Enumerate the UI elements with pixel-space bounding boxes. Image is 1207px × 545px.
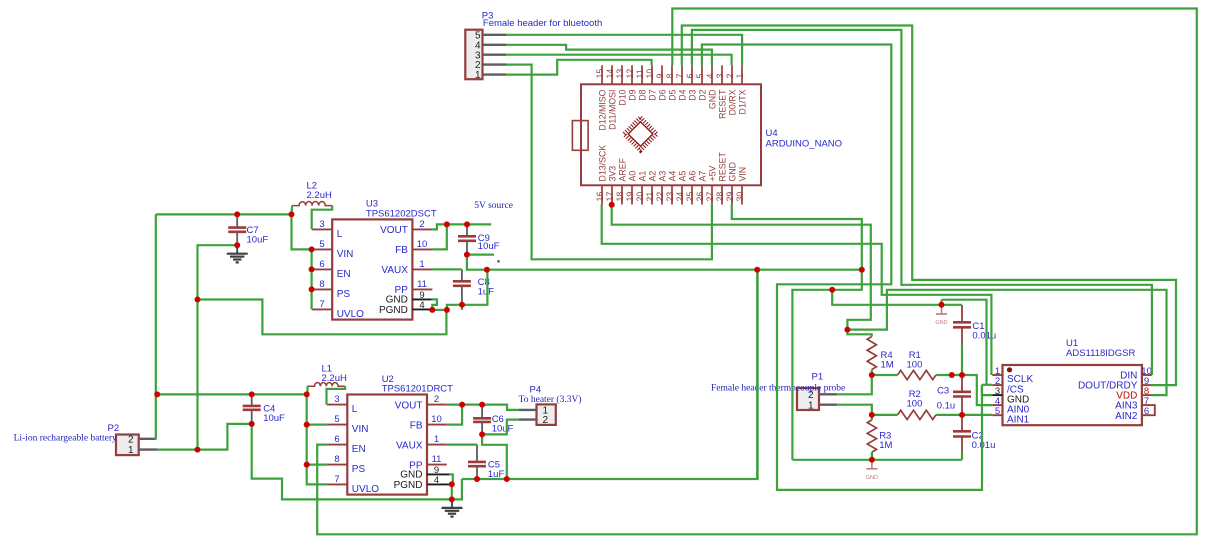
junction (757.2,269.7) — [754, 267, 760, 273]
wire C6 bottom to gnd rail — [482, 434, 507, 479]
junction (861.8,269.7) — [859, 267, 865, 273]
wire GND long line — [467, 255, 862, 270]
svg-text:11: 11 — [635, 69, 645, 78]
junction (306.7,424.6) — [304, 422, 310, 428]
U3 pin 6 (EN) — [312, 268, 332, 270]
connector P1 (thermocouple probe) — [797, 388, 819, 410]
svg-text:6: 6 — [334, 434, 339, 445]
svg-text:VOUT: VOUT — [395, 400, 423, 411]
svg-text:0.01u: 0.01u — [972, 331, 996, 342]
P4 pin 2 — [519, 418, 537, 420]
connector P2 (Li-ion battery) — [116, 435, 139, 456]
svg-text:A7: A7 — [697, 171, 707, 182]
wire battery- to U3 PGND cluster — [198, 300, 447, 335]
wire FB to VOUT — [432, 224, 446, 249]
wire stub below C8 dot — [461, 305, 463, 310]
svg-text:16: 16 — [595, 192, 605, 202]
wire L1 right to U2 L pin — [327, 386, 346, 404]
svg-text:4: 4 — [419, 300, 424, 311]
junction (306.7,394.4) — [304, 391, 310, 397]
svg-text:EN: EN — [352, 444, 366, 455]
svg-text:15: 15 — [595, 69, 605, 79]
junction (291.5,214.4) — [289, 211, 295, 217]
U2 pin 6 (EN) — [327, 444, 347, 446]
svg-text:26: 26 — [695, 192, 705, 202]
U3 pin 9 (GND) — [412, 298, 431, 300]
svg-text:Female header for bluetooth: Female header for bluetooth — [483, 18, 602, 29]
wire AIN1 node to R2 — [872, 414, 898, 416]
svg-text:100: 100 — [907, 399, 923, 410]
junction (237.2,214.4) — [234, 211, 240, 217]
U4 pin 30 (VIN) bottom — [741, 185, 743, 204]
junction (462.0,304.8) — [459, 302, 465, 308]
svg-text:RESET: RESET — [717, 152, 727, 182]
junction (962.0,414.9) — [959, 412, 965, 418]
svg-text:5: 5 — [995, 406, 1000, 417]
svg-text:D6: D6 — [657, 89, 667, 100]
junction (311.6,269.4) — [309, 266, 315, 272]
U4 pin 28 (RESET) bottom — [721, 185, 723, 204]
wire dotB to dotC — [832, 270, 862, 290]
U4 usb connector symbol — [572, 121, 588, 151]
svg-text:D1/TX: D1/TX — [737, 89, 747, 114]
wire P4.2 to C6 bottom — [482, 420, 518, 435]
P3 pin 2 — [483, 63, 507, 65]
svg-text:10uF: 10uF — [263, 413, 285, 424]
svg-text:D7: D7 — [647, 89, 657, 100]
P4 pin 1 — [519, 409, 537, 411]
junction (451.8,499.4) — [449, 496, 455, 502]
ground (C7) — [227, 245, 248, 262]
wire L2 node to U3 VIN — [292, 214, 312, 249]
U4 pin 18 (AREF) bottom — [621, 185, 623, 204]
P3 pin 4 — [483, 44, 507, 46]
svg-text:A3: A3 — [657, 171, 667, 182]
resistor — [898, 410, 936, 419]
svg-text:28: 28 — [715, 192, 725, 202]
capacitor C5 — [468, 445, 486, 479]
svg-text:VAUX: VAUX — [396, 440, 423, 451]
svg-text:GND: GND — [707, 90, 717, 110]
svg-text:6: 6 — [685, 74, 695, 79]
wire 3V3 to R4 top — [847, 330, 871, 337]
svg-text:20: 20 — [635, 192, 645, 202]
P3 pin 3 — [483, 54, 507, 56]
U3 pin 7 (UVLO) — [312, 308, 332, 310]
P2 pin 1 — [139, 448, 157, 450]
svg-text:UVLO: UVLO — [337, 309, 364, 320]
svg-text:30: 30 — [735, 192, 745, 202]
svg-text:1: 1 — [434, 434, 439, 445]
junction (306.7,464.6) — [304, 462, 310, 468]
wire R1 to U1 AIN0 — [936, 375, 992, 405]
connector P3 (female header for bluetooth) — [465, 30, 482, 79]
wire gnd rail up to dotC — [792, 290, 832, 460]
svg-text:10uF: 10uF — [492, 424, 514, 435]
svg-text:1: 1 — [735, 74, 745, 79]
IC U1 ADS1118IDGSR body — [1003, 365, 1142, 425]
junction (311.6,249.4) — [309, 246, 315, 252]
svg-text:1: 1 — [419, 259, 424, 270]
junction (466.9,254.6) — [464, 252, 470, 258]
svg-text:22: 22 — [655, 192, 665, 202]
wire GND pin29 down — [732, 205, 862, 270]
U4 pin 13 (D10) top — [621, 65, 623, 84]
wire gnd rail link — [452, 479, 462, 499]
svg-text:Li-ion rechargeable battery: Li-ion rechargeable battery — [14, 434, 117, 444]
svg-text:PS: PS — [337, 289, 351, 300]
svg-text:1M: 1M — [879, 440, 892, 451]
svg-text:P2: P2 — [108, 423, 120, 434]
svg-text:A5: A5 — [677, 171, 687, 182]
svg-text:VOUT: VOUT — [380, 225, 408, 236]
wire L2 left lead — [290, 206, 293, 215]
wire U3 VAUX to C8 — [432, 268, 462, 270]
U3 pin 10 (FB) — [412, 248, 432, 250]
svg-text:2: 2 — [128, 434, 134, 445]
svg-text:3: 3 — [319, 219, 324, 230]
svg-text:TPS61201DRCT: TPS61201DRCT — [382, 384, 453, 395]
svg-text:11: 11 — [417, 279, 427, 290]
svg-text:D10: D10 — [617, 89, 627, 105]
svg-text:AREF: AREF — [617, 157, 627, 181]
U4 pin 11 (D8) top — [641, 65, 643, 84]
svg-text:5: 5 — [334, 414, 339, 425]
svg-text:8: 8 — [665, 74, 675, 79]
svg-text:3V3: 3V3 — [607, 166, 617, 182]
junction (197.5,299.5) — [195, 297, 201, 303]
wire CS to GND pin link — [982, 385, 992, 395]
svg-text:GND: GND — [727, 162, 737, 182]
junction (451.8,484.3) — [449, 481, 455, 487]
svg-text:A6: A6 — [687, 171, 697, 182]
svg-text:D0/RX: D0/RX — [727, 89, 737, 115]
wire U3 VOUT 5V — [432, 224, 491, 229]
U4 pin 25 (A6) bottom — [691, 185, 693, 204]
junction (432.3,309.9) — [429, 307, 435, 313]
junction (871.8,414.9) — [869, 412, 875, 418]
U4 pin 24 (A5) bottom — [681, 185, 683, 204]
inductor — [308, 383, 346, 387]
U2 pin 8 (PS) — [327, 464, 347, 466]
P3 pin 5 — [483, 34, 507, 36]
svg-text:VIN: VIN — [352, 424, 369, 435]
GND flag (below R3) — [866, 460, 878, 481]
junction (446.9,309.9) — [444, 307, 450, 313]
svg-text:1: 1 — [808, 400, 814, 411]
svg-text:FB: FB — [395, 245, 408, 256]
U2 pin 11 (PP) — [427, 464, 447, 466]
resistor — [898, 370, 936, 379]
svg-text:ADS1118IDGSR: ADS1118IDGSR — [1066, 348, 1135, 359]
svg-text:AIN1: AIN1 — [1007, 414, 1030, 425]
svg-text:PGND: PGND — [379, 305, 408, 316]
U2 pin 9 (GND) — [427, 473, 449, 475]
U1 pin 9 (DOUT/DRDY) — [1142, 384, 1152, 386]
svg-text:14: 14 — [605, 69, 615, 79]
svg-text:24: 24 — [675, 192, 685, 202]
U4 pin 8 (D5) top — [671, 65, 673, 84]
svg-text:10uF: 10uF — [478, 241, 500, 252]
resistor — [867, 420, 876, 452]
junction (446.8,224.4) — [444, 221, 450, 227]
wire P3.2 to +5V pin27 — [506, 65, 712, 260]
wire thermocouple gnd rail — [792, 459, 962, 461]
svg-text:VIN: VIN — [737, 167, 747, 182]
junction (832.2,289.8) — [829, 287, 835, 293]
svg-text:29: 29 — [725, 192, 735, 202]
U4 pin 15 (D12/MISO) top — [601, 65, 603, 84]
U4 pin 6 (D3) top — [691, 65, 693, 84]
svg-text:AIN2: AIN2 — [1115, 411, 1138, 422]
wire R4 bottom — [871, 370, 873, 376]
U2 pin 5 (VIN) — [327, 424, 347, 426]
U2 pin 1 (VAUX) — [427, 444, 447, 446]
svg-text:L: L — [337, 229, 343, 240]
wire 3V3 down — [612, 205, 871, 330]
junction (157.2,394.4) — [154, 391, 160, 397]
wire U2 FB to VOUT — [447, 405, 462, 425]
wire L1 left lead — [306, 386, 308, 394]
svg-text:5V source: 5V source — [474, 201, 513, 211]
U4 pin 29 (GND) bottom — [731, 185, 733, 204]
svg-text:18: 18 — [615, 192, 625, 202]
wire D5 to U2 EN (outer loop) — [317, 9, 1197, 535]
junction (251.7,423.9) — [249, 421, 255, 427]
stray dot — [497, 260, 500, 263]
wire C7 bottom to battery- vertical — [198, 245, 238, 449]
wire AIN0 node to R1 — [872, 374, 898, 376]
wire C4 bottom to U2 ground rail — [252, 424, 452, 500]
U4 pin 12 (D9) top — [631, 65, 633, 84]
U1 pin 7 (AIN3) — [1142, 404, 1152, 406]
U3 pin 2 (VOUT) — [412, 228, 432, 230]
svg-text:4: 4 — [705, 74, 715, 79]
U4 pin 9 (D6) top — [661, 65, 663, 84]
junction (251.7,394.4) — [249, 391, 255, 397]
wire dot2 up to C8 bottom — [447, 305, 462, 310]
IC U4 ARDUINO_NANO body — [581, 84, 761, 185]
svg-text:C3: C3 — [937, 386, 949, 397]
U4 pin 26 (A7) bottom — [701, 185, 703, 204]
U3 pin 5 (VIN) — [312, 248, 332, 250]
wire CS stub — [982, 384, 992, 386]
wire U2 VAUX to C5 — [447, 444, 477, 446]
svg-text:7: 7 — [334, 474, 339, 485]
U4 pin 17 (3V3) bottom — [611, 185, 613, 204]
svg-text:PS: PS — [352, 464, 366, 475]
U4 pin 7 (D4) top — [681, 65, 683, 84]
wire GND to U1 CS — [942, 300, 987, 385]
U4 pin 20 (A1) bottom — [641, 185, 643, 204]
wire gnd rail to GND line — [462, 270, 758, 479]
P1 pin 1 — [819, 404, 837, 406]
svg-text:0.1u: 0.1u — [937, 401, 956, 412]
svg-text:2: 2 — [725, 74, 735, 79]
resistor — [867, 337, 876, 370]
svg-text:To heater (3.3V): To heater (3.3V) — [519, 394, 582, 405]
wire P1.1 to AIN1 node — [837, 405, 872, 415]
wire battery+ vertical — [155, 214, 158, 438]
U4 pin 16 (D13/SCK) bottom — [601, 185, 603, 204]
P2 pin 2 — [139, 438, 157, 440]
U1 pin 3 (GND) — [992, 394, 1002, 396]
wire P1.2 to AIN0 node — [837, 375, 872, 394]
junction (611.7,204.8) — [609, 202, 615, 208]
inductor — [292, 202, 332, 206]
svg-text:11: 11 — [432, 454, 442, 465]
junction (311.6,289.4) — [309, 286, 315, 292]
svg-text:EN: EN — [337, 269, 351, 280]
U4 pin 3 (RESET) top — [721, 65, 723, 84]
wire P3.4 to GND pin4 — [506, 45, 712, 66]
svg-text:L: L — [352, 404, 358, 415]
wire C9 bottom stub — [467, 254, 494, 256]
svg-text:P1: P1 — [812, 372, 824, 383]
svg-text:TPS61202DSCT: TPS61202DSCT — [366, 209, 437, 220]
svg-text:GND: GND — [866, 475, 878, 481]
U4 pin 10 (D7) top — [651, 65, 653, 84]
U1 pin 1 (SCLK) — [992, 374, 1002, 376]
svg-text:2: 2 — [434, 394, 439, 405]
wire R2 to U1 AIN1 — [936, 414, 992, 416]
U4 pin 19 (A0) bottom — [631, 185, 633, 204]
svg-text:Female header thermocouple pro: Female header thermocouple probe — [711, 384, 845, 394]
junction (482.1,434.4) — [479, 431, 485, 437]
svg-text:D12/MISO: D12/MISO — [597, 89, 607, 130]
svg-text:2.2uH: 2.2uH — [322, 373, 347, 384]
wire 3V3 to U1 VDD — [847, 290, 1166, 395]
wire D4 to DOUT/DRDY — [682, 26, 1176, 386]
capacitor C4 — [243, 394, 261, 424]
svg-text:7: 7 — [319, 299, 324, 310]
wire D2 to GND rail — [702, 45, 982, 490]
U4 pin 23 (A4) bottom — [671, 185, 673, 204]
svg-text:10uF: 10uF — [247, 235, 269, 246]
U4 pin 27 (+5V) bottom — [711, 185, 713, 204]
svg-text:12: 12 — [625, 69, 635, 79]
svg-text:6: 6 — [1144, 406, 1149, 417]
U3 pin 11 (PP) — [412, 288, 432, 290]
junction (871.9,459.8) — [869, 457, 875, 463]
svg-text:9: 9 — [655, 74, 665, 79]
wire R3 bottom — [871, 452, 873, 460]
U3 pin 1 (VAUX) — [412, 268, 432, 270]
svg-text:19: 19 — [625, 192, 635, 202]
wire U3 VIN-EN-PS-UVLO chain — [311, 249, 313, 309]
U4 pin 4 (GND) top — [711, 65, 713, 84]
capacitor C3 — [953, 376, 971, 414]
U1 pin 2 (/CS) — [992, 384, 1002, 386]
junction (197.5,449.6) — [195, 447, 201, 453]
svg-text:D9: D9 — [627, 89, 637, 100]
wire U2 GND9 jog — [449, 474, 453, 484]
svg-text:1: 1 — [475, 70, 481, 81]
wire R3 top — [871, 415, 873, 420]
svg-text:D3: D3 — [687, 89, 697, 100]
junction (237.2,245.2) — [234, 242, 240, 248]
wire GND up jog — [940, 300, 942, 305]
wire P3.3 to D0/RX — [506, 55, 732, 66]
junction (482.1,404.6) — [479, 402, 485, 408]
svg-text:A2: A2 — [647, 171, 657, 182]
U1 pin 5 (AIN1) — [992, 414, 1002, 416]
junction (941.5,304.8) — [939, 302, 945, 308]
wire to C1 top — [942, 304, 963, 306]
junction (951.8,375.0) — [949, 372, 955, 378]
svg-text:GND: GND — [400, 470, 422, 481]
wire L2 right to U3 L pin — [312, 206, 333, 230]
wire D13/SCK to U1 SCLK — [602, 205, 992, 376]
svg-text:23: 23 — [665, 192, 675, 202]
capacitor C8 — [453, 269, 471, 304]
wire C1 bottom to AIN0 line — [961, 345, 963, 375]
svg-text:D13/SCK: D13/SCK — [597, 145, 607, 182]
U2 pin 4 (PGND) — [427, 483, 449, 485]
svg-text:GND: GND — [386, 295, 408, 306]
capacitor C1 — [953, 305, 971, 345]
junction (962.0,375.0) — [959, 372, 965, 378]
capacitor C2 — [953, 416, 971, 452]
svg-text:2: 2 — [419, 219, 424, 230]
IC U2 TPS61201DRCT body — [347, 395, 427, 495]
junction (486.9,269.7) — [484, 267, 490, 273]
wire D3 to DIN — [692, 30, 1152, 375]
svg-text:VAUX: VAUX — [381, 265, 408, 276]
wire C8 bottom to GND line — [462, 270, 487, 305]
svg-text:ARDUINO_NANO: ARDUINO_NANO — [766, 139, 843, 150]
wire U3 PGND to dot2 — [432, 309, 447, 311]
wire battery+ to L1 — [157, 393, 308, 395]
junction (871.8,375.0) — [869, 372, 875, 378]
svg-text:U4: U4 — [766, 128, 778, 139]
svg-text:D4: D4 — [677, 89, 687, 100]
connector P4 (to heater) — [537, 404, 556, 425]
P3 pin 1 — [483, 73, 507, 75]
svg-text:25: 25 — [685, 192, 695, 202]
capacitor C7 — [228, 214, 246, 245]
U3 pin 4 (PGND) — [412, 308, 431, 310]
svg-text:A1: A1 — [637, 171, 647, 182]
svg-text:D5: D5 — [667, 89, 677, 100]
svg-text:4: 4 — [434, 475, 439, 486]
svg-text:1: 1 — [128, 445, 134, 456]
wire U2 VOUT to P4.1 — [447, 405, 519, 410]
svg-text:10: 10 — [417, 239, 428, 250]
svg-text:RESET: RESET — [717, 89, 727, 119]
svg-text:PGND: PGND — [394, 480, 423, 491]
U1 pin 10 (DIN) — [1142, 374, 1152, 376]
U4 pin 2 (D0/RX) top — [731, 65, 733, 84]
svg-text:10: 10 — [645, 69, 655, 79]
U3 pin 3 (L) — [312, 228, 332, 230]
P1 pin 2 — [819, 393, 837, 395]
svg-text:8: 8 — [334, 454, 339, 465]
svg-text:2.2uH: 2.2uH — [307, 190, 332, 201]
junction (467.0,224.4) — [464, 221, 470, 227]
wire P3.5 to D1/TX — [506, 35, 742, 66]
U2 pin 7 (UVLO) — [327, 483, 347, 485]
svg-text:D11/MOSI: D11/MOSI — [607, 90, 617, 130]
U3 pin 8 (PS) — [312, 288, 332, 290]
junction (847.4,329.6) — [844, 327, 850, 333]
svg-text:3: 3 — [334, 394, 339, 405]
U1 pin 6 (AIN2) — [1142, 414, 1152, 416]
svg-text:0.01u: 0.01u — [972, 440, 996, 451]
svg-text:8: 8 — [319, 279, 324, 290]
capacitor C9 — [458, 224, 476, 254]
U4 pin 14 (D11/MOSI) top — [611, 65, 613, 84]
